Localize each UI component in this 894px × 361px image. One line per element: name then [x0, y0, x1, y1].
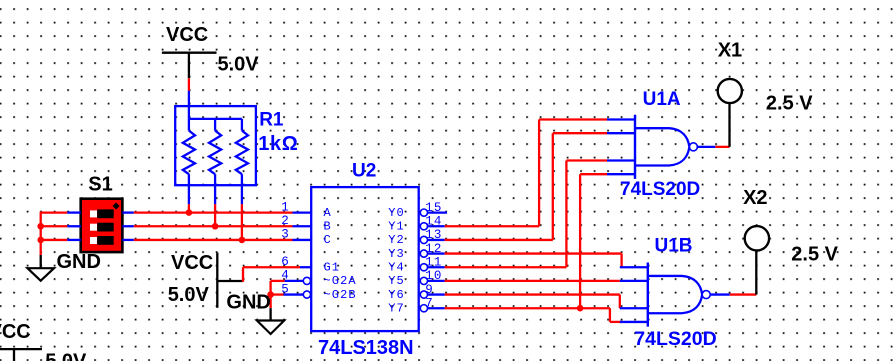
wire Y1 to U1A input 1	[445, 120, 607, 227]
junction on ground bus row B	[37, 223, 44, 230]
nand gate U1B 74LS20D	[620, 263, 710, 327]
wire row C (S1 to U2 pin 3)	[122, 239, 311, 241]
svg-text:2.5 V: 2.5 V	[766, 93, 813, 115]
svg-text:B: B	[324, 220, 332, 234]
svg-text:74LS20D: 74LS20D	[634, 328, 716, 350]
pin 4 bubble	[303, 277, 310, 284]
svg-text:U2: U2	[352, 161, 376, 182]
wire Y6 to U1B input 3	[445, 295, 620, 309]
svg-text:GND: GND	[226, 292, 270, 314]
svg-text:X1: X1	[718, 39, 742, 61]
power VCC V3 (bottom left, 5.0V)	[0, 321, 87, 361]
svg-text:6: 6	[281, 255, 290, 269]
pin 5 bubble	[303, 291, 310, 298]
svg-text:2: 2	[281, 214, 290, 228]
nand gate U1A 74LS20D	[607, 115, 697, 179]
svg-text:X2: X2	[743, 187, 767, 209]
wire U1B output to probe X2	[710, 293, 757, 295]
svg-text:4: 4	[281, 269, 290, 283]
U2 output pin 7 (Y7) bubble+stub	[420, 305, 444, 312]
wire Y4 to U1A input 3	[445, 161, 607, 268]
U2 output pin 15 (Y0) bubble+stub	[420, 209, 447, 216]
junction Y7 branch	[577, 305, 584, 312]
wire U1A output to probe X1	[697, 146, 730, 148]
svg-text:Y2: Y2	[388, 233, 405, 247]
svg-text:~G2B: ~G2B	[324, 288, 357, 302]
svg-text:5.0V: 5.0V	[218, 53, 260, 75]
svg-text:1: 1	[281, 200, 290, 214]
svg-text:1kΩ: 1kΩ	[258, 133, 298, 155]
svg-text:R1: R1	[259, 109, 284, 130]
svg-text:2.5 V: 2.5 V	[791, 244, 838, 266]
wire S1 left to ground bus	[41, 212, 81, 255]
svg-text:3: 3	[281, 228, 290, 242]
svg-text:11: 11	[425, 255, 442, 269]
svg-text:15: 15	[425, 201, 442, 215]
wire row A (S1 to U2 pin 1)	[122, 211, 311, 213]
ground GND (left of S1)	[28, 251, 101, 281]
junction R1a/row A	[186, 209, 193, 216]
U2 output pin 11 (Y4) bubble+stub	[420, 264, 444, 271]
junction on ground bus row C	[37, 237, 44, 244]
svg-text:~G2A: ~G2A	[324, 274, 357, 288]
svg-text:9: 9	[425, 283, 434, 297]
svg-text:A: A	[324, 206, 332, 220]
probe X1 (2.5 V)	[718, 39, 742, 147]
power VCC V1 (top left, 5.0V)	[162, 24, 259, 78]
U2 output pin 14 (Y1) bubble+stub	[420, 223, 444, 230]
svg-text:5.0V: 5.0V	[168, 284, 210, 306]
wire Y7 branch to U1A input 4	[580, 174, 607, 308]
svg-text:74LS20D: 74LS20D	[620, 179, 700, 200]
junction R1b/row B	[212, 223, 219, 230]
svg-text:Y7: Y7	[388, 302, 405, 316]
wire Y7 to U1B input 4	[445, 308, 622, 322]
svg-text:U1A: U1A	[643, 89, 681, 110]
svg-text:74LS138N: 74LS138N	[318, 337, 414, 359]
svg-text:VCC: VCC	[166, 24, 208, 46]
wire ~G2A/~G2B to ground	[271, 281, 304, 308]
wire VCC to R1	[188, 78, 190, 119]
svg-text:GND: GND	[57, 251, 101, 273]
probe X2 (2.5 V)	[743, 187, 769, 295]
wires R1 to input rows	[189, 185, 242, 240]
svg-text:S1: S1	[88, 174, 112, 196]
wire Y3 to U1B input 1	[445, 254, 622, 268]
svg-text:5.0V: 5.0V	[45, 350, 87, 361]
svg-text:5: 5	[281, 282, 290, 296]
svg-text:Y1: Y1	[388, 220, 405, 234]
svg-text:Y5: Y5	[388, 274, 405, 288]
svg-text:Y0: Y0	[388, 206, 405, 220]
svg-text:VCC: VCC	[0, 321, 31, 343]
svg-text:14: 14	[425, 214, 442, 228]
U2 output pin 12 (Y3) bubble+stub	[420, 250, 444, 257]
wire row B (S1 to U2 pin 2)	[122, 225, 311, 227]
junction R1c/row C	[239, 237, 246, 244]
switch S1 (3x DIP)	[81, 174, 123, 252]
wire Y2 to U1A input 2	[445, 133, 607, 240]
wire Y5 to U1B input 2	[445, 280, 620, 282]
svg-text:12: 12	[425, 242, 442, 256]
svg-text:C: C	[324, 233, 332, 247]
svg-text:10: 10	[425, 269, 442, 283]
svg-text:13: 13	[425, 228, 442, 242]
U2 output pin 9 (Y6) bubble+stub	[420, 291, 444, 298]
svg-text:VCC: VCC	[171, 252, 213, 274]
resistor pack R1 1k	[175, 106, 256, 185]
ground GND (at U2)	[226, 292, 284, 335]
svg-text:7: 7	[425, 296, 434, 310]
junction ~G2B node	[267, 291, 274, 298]
wire VCC to U2 G1 pin 6	[217, 267, 311, 282]
decoder U2 74LS138N	[311, 187, 419, 331]
svg-text:Y3: Y3	[388, 247, 405, 261]
svg-text:G1: G1	[324, 261, 341, 275]
svg-text:Y6: Y6	[388, 288, 405, 302]
U2 output pin 13 (Y2) bubble+stub	[420, 236, 444, 243]
power VCC V2 (middle, 5.0V)	[168, 252, 218, 308]
svg-text:U1B: U1B	[655, 235, 693, 256]
svg-text:Y4: Y4	[388, 261, 405, 275]
U2 output pin 10 (Y5) bubble+stub	[420, 277, 444, 284]
